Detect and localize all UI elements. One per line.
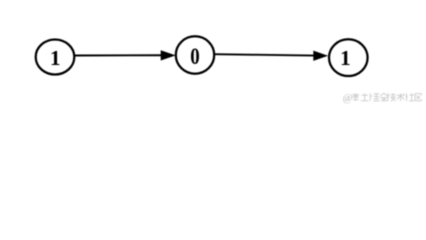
- svg-text:1: 1: [340, 46, 351, 70]
- node 1 (circle, label 1): [36, 40, 75, 75]
- char 稀: [352, 93, 359, 101]
- edge 1 -> 0 (wire): [75, 54, 163, 56]
- edge 0 -> 1 (wire): [214, 54, 315, 55]
- node 0 (circle, label 0): [176, 36, 214, 73]
- char 社: [406, 93, 415, 101]
- char 金: [380, 93, 388, 101]
- char 术: [397, 93, 405, 101]
- svg-text:@: @: [343, 92, 353, 104]
- char 掘: [370, 93, 379, 101]
- char 土: [361, 93, 369, 101]
- char 技: [387, 93, 395, 101]
- char 区: [415, 94, 422, 101]
- arrowhead of edge 1: [161, 51, 175, 60]
- svg-text:0: 0: [190, 43, 199, 70]
- node 1b (circle, label 1): [329, 39, 368, 76]
- svg-text:1: 1: [50, 46, 61, 70]
- watermark "@稀土掘金技术社区": [343, 92, 422, 104]
- arrowhead of edge 2: [314, 51, 328, 60]
